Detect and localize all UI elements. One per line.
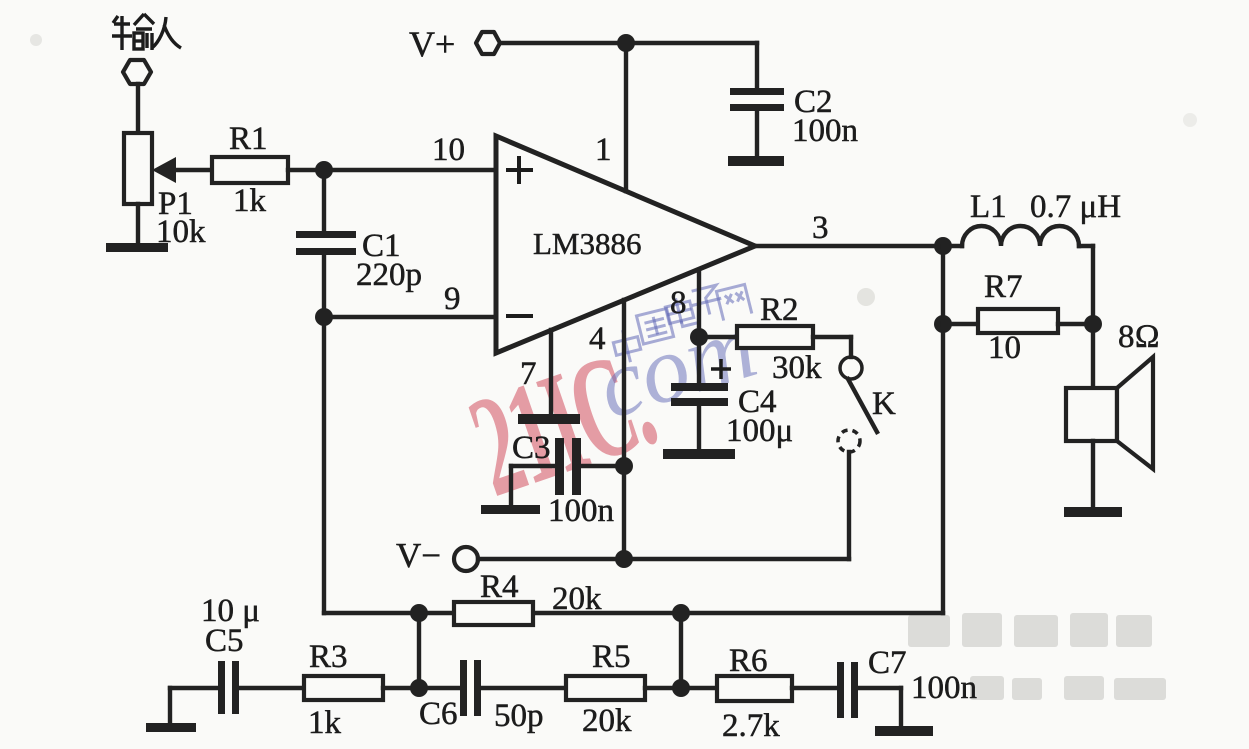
svg-text:100n: 100n — [792, 113, 858, 149]
wire C7 to ground — [858, 688, 901, 729]
wire node to speaker — [1091, 324, 1095, 388]
capacitor C7 — [837, 645, 977, 718]
terminal V- — [396, 536, 849, 575]
wire C3 to pin4 line — [581, 464, 624, 468]
node junction V-/pin4 — [615, 550, 633, 568]
resistor R5 — [566, 639, 645, 739]
resistor R4 — [454, 569, 602, 625]
wire output pin 3 — [755, 244, 943, 248]
wire pin 8 down — [697, 270, 701, 337]
svg-text:1k: 1k — [308, 705, 342, 741]
svg-text:1: 1 — [595, 132, 612, 168]
resistor R1 — [174, 121, 288, 219]
svg-text:R6: R6 — [729, 643, 768, 679]
svg-text:220p: 220p — [356, 257, 422, 293]
ground pin 7 — [518, 414, 580, 424]
node junction at R1/C1 — [315, 161, 333, 179]
ground C3 — [481, 505, 540, 514]
ground P1 — [106, 204, 168, 252]
svg-text:L1: L1 — [970, 189, 1007, 225]
wire R5 to R6 — [645, 686, 717, 690]
svg-text:R5: R5 — [592, 639, 631, 675]
wire C5 to R3 — [239, 686, 304, 690]
wire vertical to R5/R6 node — [679, 613, 683, 688]
svg-text:R2: R2 — [760, 292, 799, 328]
svg-text:0.7 μH: 0.7 μH — [1030, 189, 1121, 225]
wire pin 4 down to V- rail — [622, 300, 626, 559]
ground C7 — [875, 726, 933, 736]
svg-text:C5: C5 — [205, 623, 244, 659]
switch K — [838, 357, 896, 452]
op-amp U1 LM3886 — [432, 132, 829, 392]
input terminal 输入 — [112, 14, 181, 84]
svg-text:7: 7 — [520, 356, 537, 392]
capacitor C3 — [511, 430, 614, 529]
capacitor C5 — [201, 593, 260, 714]
ground C4 — [663, 449, 735, 459]
svg-text:9: 9 — [444, 281, 461, 317]
wire feedback vertical — [941, 246, 945, 613]
resistor R3 — [304, 639, 383, 741]
node junction R7 right — [1084, 315, 1102, 333]
wire switch to V- rail — [847, 452, 851, 559]
wire C6 to R5 — [481, 686, 566, 690]
svg-text:50p: 50p — [494, 698, 544, 734]
svg-text:V+: V+ — [409, 24, 455, 64]
wire feedback bottom row — [324, 611, 943, 615]
svg-text:C3: C3 — [512, 430, 551, 466]
svg-text:30k: 30k — [772, 350, 822, 386]
svg-text:20k: 20k — [582, 703, 632, 739]
potentiometer P1 — [124, 133, 206, 250]
capacitor C4 — [671, 337, 793, 452]
wire L1 to R7 node — [1091, 246, 1095, 324]
ground speaker — [1064, 507, 1122, 517]
ground C5 — [146, 688, 218, 732]
speaker 8 ohm — [1066, 319, 1160, 469]
wire input to P1 — [136, 84, 140, 133]
svg-text:100μ: 100μ — [726, 413, 793, 449]
capacitor C1 — [296, 170, 422, 293]
wire vertical to C6 node — [417, 613, 421, 688]
wire C1 down to feedback row — [322, 255, 326, 613]
svg-text:8Ω: 8Ω — [1118, 319, 1160, 355]
node junction R5/R6 — [672, 679, 690, 697]
svg-text:LM3886: LM3886 — [533, 226, 642, 261]
wire R6 to C7 — [792, 686, 837, 690]
svg-text:100n: 100n — [548, 493, 614, 529]
svg-text:10: 10 — [432, 132, 465, 168]
node junction R7 left — [934, 315, 952, 333]
svg-text:100n: 100n — [911, 670, 977, 706]
wire R3 to C6 — [383, 686, 460, 690]
svg-text:2.7k: 2.7k — [722, 708, 780, 744]
svg-text:3: 3 — [812, 210, 829, 246]
svg-text:4: 4 — [589, 321, 606, 357]
inductor L1 — [943, 189, 1121, 246]
node junction pin8/R2/C4 — [690, 328, 708, 346]
wire speaker to ground — [1091, 441, 1095, 510]
node junction V+ pin1 — [617, 34, 635, 52]
svg-text:R1: R1 — [229, 121, 268, 157]
terminal V+ — [409, 24, 757, 64]
capacitor C6 — [419, 660, 544, 734]
ground C2 — [728, 156, 784, 166]
capacitor C2 — [730, 43, 858, 158]
svg-text:K: K — [872, 386, 896, 422]
svg-text:10: 10 — [988, 330, 1021, 366]
wire R1 to pin 10 — [288, 168, 496, 172]
node junction pin 9 — [315, 308, 333, 326]
svg-text:R3: R3 — [309, 639, 348, 675]
resistor R2 — [699, 292, 851, 386]
svg-text:C6: C6 — [419, 696, 458, 732]
node junction feedback/R5 — [672, 604, 690, 622]
node junction R4 left — [410, 604, 428, 622]
svg-text:1k: 1k — [233, 183, 267, 219]
resistor R6 — [717, 643, 792, 744]
svg-text:R7: R7 — [984, 269, 1023, 305]
svg-text:20k: 20k — [552, 581, 602, 617]
wire pin 1 to V+ rail — [624, 43, 628, 191]
svg-text:R4: R4 — [480, 569, 519, 605]
node junction C6 — [410, 679, 428, 697]
wire pin 9 — [324, 315, 496, 319]
node junction C3/pin4 — [615, 457, 633, 475]
faint gray bottom-right watermark — [908, 613, 1166, 700]
svg-text:8: 8 — [670, 285, 687, 321]
wire pin 7 down — [549, 330, 553, 417]
svg-text:V−: V− — [396, 536, 441, 575]
svg-text:C7: C7 — [868, 645, 907, 681]
node junction output — [934, 237, 952, 255]
resistor R7 — [943, 269, 1093, 366]
